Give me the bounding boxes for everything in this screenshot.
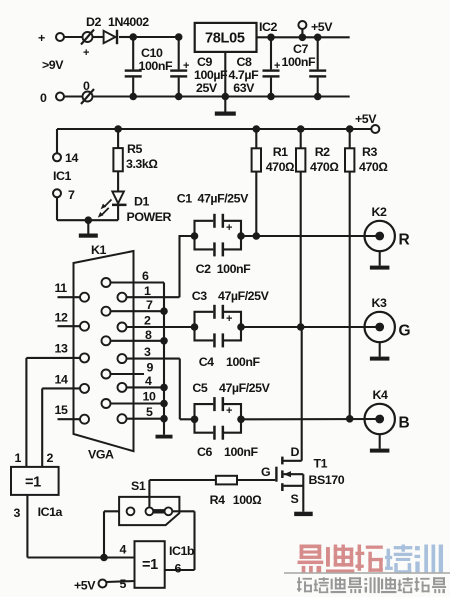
node [114, 125, 122, 133]
svg-text:47µF/25V: 47µF/25V [198, 192, 250, 206]
pin 4 [118, 374, 165, 392]
svg-text:+5V: +5V [74, 579, 96, 593]
svg-text:C10: C10 [141, 46, 163, 60]
watermark: gray underline [284, 572, 450, 574]
wire [64, 36, 83, 38]
svg-text:+: + [274, 60, 280, 72]
svg-text:1N4002: 1N4002 [108, 15, 149, 29]
node: diode cathode junction [129, 33, 137, 41]
svg-text:S1: S1 [131, 479, 146, 493]
svg-text:0: 0 [83, 79, 90, 93]
svg-text:+5V: +5V [311, 20, 333, 34]
svg-text:IC1a: IC1a [38, 505, 63, 519]
svg-text:POWER: POWER [127, 210, 172, 224]
node IC1 pin 7 ground terminal [53, 188, 75, 202]
svg-text:C4: C4 [199, 355, 214, 369]
svg-text:+: + [226, 405, 232, 417]
pin 14 [42, 373, 89, 393]
transistor T1 BS170 [261, 445, 345, 512]
wire: pin1 to C1/C2 left node [180, 236, 195, 297]
svg-text:G: G [399, 323, 411, 340]
svg-text:4.7µF: 4.7µF [229, 68, 260, 82]
svg-text:100nF: 100nF [224, 445, 258, 459]
watermark: gray CJK tagline [297, 577, 446, 593]
svg-text:K1: K1 [91, 243, 106, 257]
node [191, 323, 199, 331]
node [267, 34, 275, 42]
pin 6 [102, 269, 165, 287]
wire: B channel row [241, 418, 380, 420]
svg-text:C5: C5 [192, 381, 207, 395]
pin 13 [26, 342, 89, 363]
wire: R channel row [241, 235, 380, 237]
svg-text:K3: K3 [372, 296, 387, 310]
capacitor C3 47uF/25V [192, 289, 270, 327]
ground: K2 [370, 251, 390, 269]
node [160, 400, 168, 408]
wire: T1 drain from G row [282, 327, 301, 461]
capacitor C4 100nF [195, 327, 261, 369]
svg-text:R: R [399, 232, 410, 249]
wire: node to S1 left contact [104, 511, 127, 557]
wire: pin14 to IC1a input 2 [41, 388, 43, 467]
svg-text:D1: D1 [134, 195, 149, 209]
connector pin 0 (slash circle) [81, 79, 94, 104]
svg-text:=1: =1 [142, 557, 158, 573]
ground [79, 220, 98, 238]
ground: VGA shield [156, 435, 173, 439]
wire [93, 36, 104, 38]
svg-text:R4: R4 [210, 493, 225, 507]
node [346, 415, 354, 423]
svg-text:9: 9 [147, 361, 154, 375]
svg-text:R1: R1 [273, 145, 288, 159]
resistor R1 470R [252, 129, 294, 236]
svg-text:100nF: 100nF [282, 55, 316, 69]
svg-text:IC2: IC2 [259, 20, 277, 34]
svg-text:14: 14 [55, 373, 68, 387]
svg-text:470Ω: 470Ω [310, 160, 338, 174]
ground: T1 source [294, 512, 313, 516]
capacitor C5 47uF/25V [192, 381, 270, 419]
node [346, 125, 354, 133]
svg-text:6: 6 [175, 562, 182, 576]
capacitor C7 100nF [282, 37, 327, 96]
svg-text:T1: T1 [314, 457, 328, 471]
svg-text:C2: C2 [196, 262, 211, 276]
node +5V terminal (rail end) [355, 112, 379, 133]
ground: 78L05 [215, 52, 236, 116]
node [222, 93, 230, 101]
svg-text:B: B [399, 415, 410, 432]
node [100, 554, 108, 562]
svg-text:63V: 63V [233, 81, 255, 95]
svg-text:+: + [226, 222, 232, 234]
wire [57, 197, 118, 220]
wire [133, 36, 179, 38]
wire: pin13 to IC1a input 1 [25, 358, 27, 467]
node [160, 307, 168, 315]
node [314, 93, 322, 101]
svg-text:100nF: 100nF [139, 59, 173, 73]
pin 5 [118, 405, 165, 423]
capacitor C8 4.7uF/63V [229, 37, 281, 96]
pin 1 [118, 284, 180, 302]
svg-text:15: 15 [55, 403, 68, 417]
pin 7 [102, 298, 165, 316]
connector K3 BNC G [365, 296, 411, 342]
node [175, 93, 183, 101]
node [191, 232, 199, 240]
svg-text:C9: C9 [197, 55, 212, 69]
svg-text:3: 3 [144, 345, 151, 359]
svg-text:5: 5 [120, 577, 127, 591]
node [237, 323, 245, 331]
svg-text:13: 13 [55, 342, 68, 356]
svg-text:14: 14 [65, 151, 78, 165]
svg-text:VGA: VGA [88, 448, 114, 462]
svg-text:100µF: 100µF [194, 68, 228, 82]
node [299, 34, 307, 42]
svg-text:BS170: BS170 [309, 473, 345, 487]
capacitor C1 47uF/25V [177, 192, 249, 237]
wire: S1 right contact to IC1b output [165, 511, 195, 570]
svg-text:2: 2 [47, 451, 54, 465]
svg-text:78L05: 78L05 [205, 31, 245, 47]
connector K4 BNC B [365, 388, 410, 434]
svg-text:12: 12 [55, 311, 68, 325]
svg-text:8: 8 [145, 328, 152, 342]
wire: +5V distribution rail [57, 129, 371, 153]
node [297, 323, 305, 331]
diode D2 1N4002 [86, 15, 149, 44]
svg-text:7: 7 [146, 298, 153, 312]
gate IC1a =1 [11, 451, 63, 520]
resistor R4 100R [210, 476, 276, 507]
node 0V input terminal [40, 91, 64, 105]
svg-text:6: 6 [142, 269, 149, 283]
wire: pin3 to C5/C6 left node [180, 359, 195, 420]
node [191, 416, 199, 424]
pin 2 [118, 314, 195, 332]
svg-text:R5: R5 [127, 142, 142, 156]
svg-text:100Ω: 100Ω [233, 493, 261, 507]
node [160, 415, 168, 423]
svg-text:C3: C3 [192, 289, 207, 303]
LED D1 POWER [98, 192, 172, 225]
svg-text:11: 11 [55, 281, 68, 295]
svg-text:1: 1 [15, 451, 22, 465]
svg-text:1: 1 [144, 284, 151, 298]
svg-text:7: 7 [68, 188, 75, 202]
node +5V terminal (top) [298, 20, 333, 37]
svg-text:C1: C1 [177, 192, 192, 206]
pin 10 [102, 390, 165, 409]
svg-text:+: + [83, 47, 89, 59]
connector pin + (slash circle) [81, 30, 94, 60]
resistor R5 3.3k [113, 129, 157, 191]
wire: ground bus [163, 283, 165, 435]
node [237, 232, 245, 240]
wire: G channel row [241, 326, 380, 328]
node [252, 125, 260, 133]
node IC1 pin 14 supply terminal [53, 151, 78, 183]
capacitor C6 100nF [195, 419, 259, 459]
node [160, 384, 168, 392]
capacitor C9 100uF/25V [170, 37, 228, 97]
svg-text:470Ω: 470Ω [359, 160, 387, 174]
svg-text:5: 5 [146, 405, 153, 419]
svg-text:C8: C8 [237, 55, 252, 69]
regulator IC2 78L05 [195, 20, 278, 52]
node + input terminal [38, 31, 64, 72]
svg-text:>9V: >9V [42, 58, 64, 72]
gate IC1b =1 [120, 541, 195, 591]
pin 8 [102, 328, 165, 345]
svg-text:+5V: +5V [355, 112, 377, 126]
svg-text:G: G [261, 465, 270, 479]
svg-text:10: 10 [143, 390, 156, 404]
svg-text:47µF/25V: 47µF/25V [218, 289, 270, 303]
resistor R2 470R [296, 129, 338, 327]
svg-text:4: 4 [120, 543, 127, 557]
node [314, 34, 322, 42]
pin 9 [102, 361, 154, 379]
svg-text:IC1b: IC1b [169, 544, 195, 558]
watermark: red/blue CJK logo [298, 545, 444, 574]
svg-text:25V: 25V [196, 81, 218, 95]
svg-text:R3: R3 [362, 145, 377, 159]
svg-text:K4: K4 [373, 388, 388, 402]
node [160, 337, 168, 345]
svg-text:R2: R2 [315, 145, 330, 159]
svg-text:+: + [183, 60, 189, 72]
wire: S1 common to R4 [149, 480, 216, 507]
node [129, 93, 137, 101]
wire: 0V bottom rail [64, 95, 350, 97]
connector K2 BNC R [365, 205, 410, 251]
ground: K4 [370, 434, 390, 452]
pin 15 [55, 403, 90, 424]
pin 12 [55, 311, 90, 331]
svg-text:=1: =1 [25, 475, 41, 491]
svg-text:C7: C7 [293, 42, 308, 56]
svg-text:100nF: 100nF [217, 262, 251, 276]
pin 11 [55, 281, 90, 302]
svg-text:3: 3 [14, 506, 21, 520]
svg-text:C6: C6 [197, 445, 212, 459]
svg-text:470Ω: 470Ω [266, 160, 294, 174]
svg-text:+: + [38, 31, 45, 45]
node [267, 93, 275, 101]
node [252, 232, 260, 240]
resistor R3 470R [345, 129, 387, 419]
svg-text:2: 2 [144, 314, 151, 328]
node [297, 125, 305, 133]
svg-text:D: D [291, 445, 300, 459]
svg-text:+: + [226, 313, 232, 325]
wire: IC1a output pin 3 [27, 495, 134, 558]
svg-text:4: 4 [145, 374, 152, 388]
node [237, 416, 245, 424]
svg-text:47µF/25V: 47µF/25V [219, 381, 271, 395]
svg-text:IC1: IC1 [53, 169, 71, 183]
node [85, 216, 93, 224]
svg-text:K2: K2 [372, 205, 387, 219]
svg-text:100nF: 100nF [226, 355, 260, 369]
switch S1 [119, 479, 179, 525]
node [175, 33, 183, 41]
wire: 78L05 output rail [257, 36, 350, 38]
capacitor C10 100nF [125, 37, 173, 97]
svg-text:3.3kΩ: 3.3kΩ [126, 157, 157, 171]
node +5V terminal (IC1b pin5) [74, 579, 135, 593]
svg-text:S: S [291, 492, 299, 506]
svg-text:D2: D2 [86, 15, 101, 29]
ground: K3 [370, 342, 390, 360]
capacitor C2 100nF [195, 236, 252, 276]
connector K1 VGA body [74, 243, 134, 462]
pin 3 [118, 345, 180, 363]
svg-text:0: 0 [40, 91, 47, 105]
